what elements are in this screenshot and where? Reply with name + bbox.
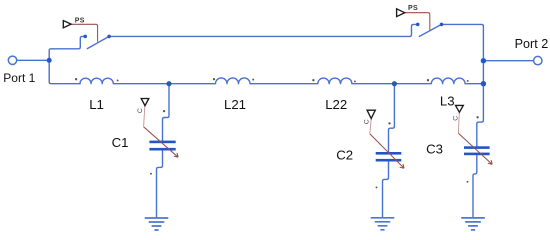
svg-text:C2: C2 <box>336 148 353 163</box>
svg-text:C: C <box>137 108 144 113</box>
svg-text:Port 1: Port 1 <box>3 71 35 85</box>
svg-text:L22: L22 <box>325 97 347 112</box>
svg-text:C1: C1 <box>112 135 129 150</box>
svg-text:Port 2: Port 2 <box>515 37 549 51</box>
svg-text:PS: PS <box>75 18 85 25</box>
svg-text:L1: L1 <box>89 97 104 112</box>
svg-text:C3: C3 <box>426 142 443 157</box>
svg-text:L3: L3 <box>440 94 455 109</box>
svg-text:C: C <box>453 116 460 121</box>
svg-text:PS: PS <box>408 5 418 12</box>
svg-text:C: C <box>364 119 371 124</box>
svg-text:L21: L21 <box>224 97 246 112</box>
